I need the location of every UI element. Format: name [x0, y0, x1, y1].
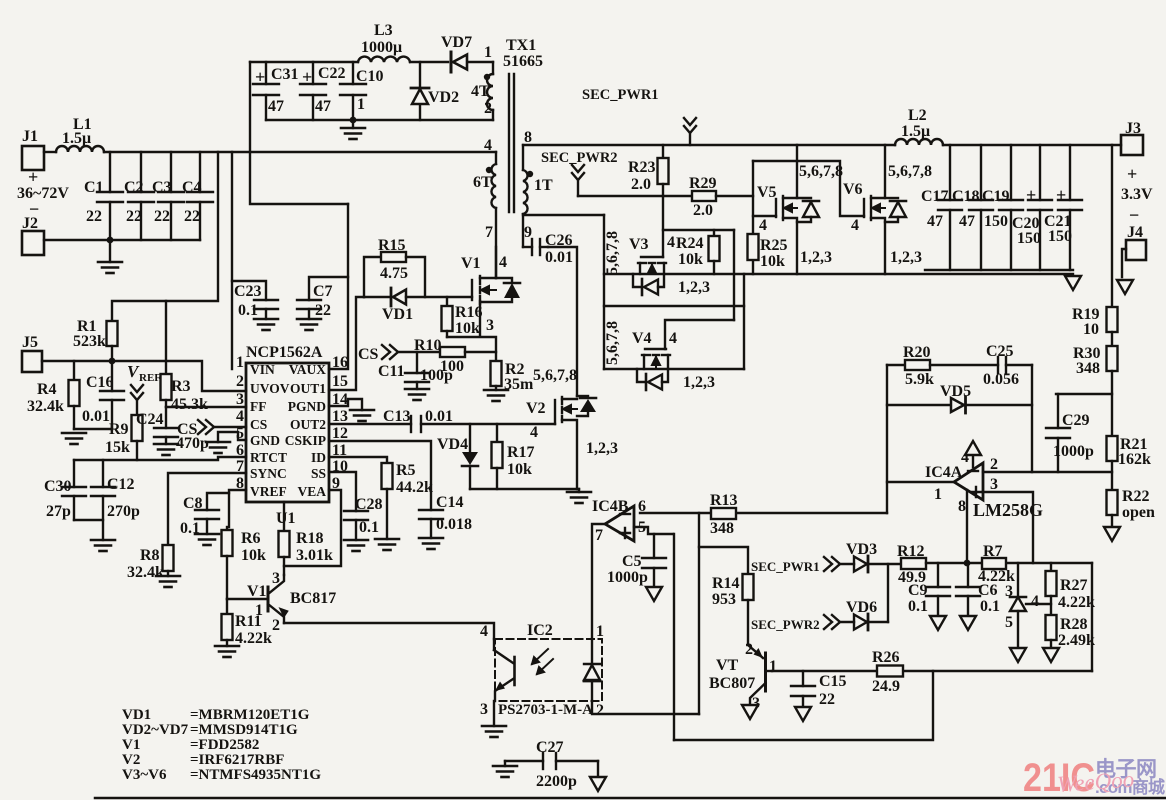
- V5 body diode: [797, 198, 819, 222]
- svg-text:VD1: VD1: [382, 306, 413, 323]
- svg-text:1.5μ: 1.5μ: [62, 130, 91, 147]
- svg-text:1,2,3: 1,2,3: [890, 249, 922, 266]
- svg-text:C23: C23: [234, 283, 262, 300]
- wire aux bottom rail: [266, 119, 493, 121]
- U1 left pin names: [250, 362, 290, 499]
- ground under C11: [405, 389, 429, 400]
- svg-text:R4: R4: [37, 381, 57, 398]
- capacitor C28: [344, 511, 368, 540]
- resistor R6: [222, 527, 233, 599]
- svg-text:22: 22: [126, 208, 142, 225]
- net flag under C5: [646, 587, 662, 601]
- wire R19 column riser: [1111, 145, 1113, 307]
- resistor R13: [711, 508, 736, 519]
- V3 body diode: [633, 274, 664, 295]
- svg-text:R11: R11: [235, 613, 262, 630]
- svg-text:C8: C8: [183, 495, 203, 512]
- svg-text:15k: 15k: [105, 439, 130, 456]
- svg-text:CS: CS: [250, 417, 267, 432]
- wire source rail y274: [604, 273, 1073, 275]
- U1 right pin numbers: [332, 354, 348, 492]
- svg-text:2: 2: [236, 373, 244, 390]
- svg-text:VD7: VD7: [441, 34, 472, 51]
- svg-text:45.3k: 45.3k: [171, 396, 208, 413]
- wire ID pin11 to R5: [329, 457, 387, 463]
- wire IC4B pin5 to C5: [634, 527, 673, 534]
- svg-text:0.01: 0.01: [82, 408, 110, 425]
- wire OUT1 riser x356: [329, 297, 364, 390]
- resistor R19: [1107, 307, 1118, 332]
- wire feedback left riser x887: [886, 365, 888, 513]
- svg-text:32.4k: 32.4k: [27, 398, 64, 415]
- svg-text:47: 47: [927, 213, 943, 230]
- wire FF pin3 line: [166, 406, 246, 408]
- V3 substrate arrow: [648, 264, 656, 274]
- svg-text:IC2: IC2: [527, 622, 553, 639]
- svg-text:V1: V1: [122, 737, 140, 753]
- wire cap bank bottom rail: [925, 269, 1073, 271]
- resistor R15 loop: [364, 252, 425, 297]
- capacitor C3: [158, 152, 184, 240]
- resistor R10: [440, 347, 496, 357]
- wire VAUX riser x348: [329, 204, 348, 369]
- svg-text:C5: C5: [622, 553, 642, 570]
- svg-text:0.1: 0.1: [980, 598, 1000, 615]
- svg-text:5: 5: [236, 425, 244, 442]
- wire pin9 to V3 drain: [523, 214, 604, 216]
- svg-text:SEC_PWR1: SEC_PWR1: [582, 87, 659, 103]
- V4 body diode: [637, 369, 668, 390]
- svg-text:R28: R28: [1060, 616, 1088, 633]
- diode VD2: [411, 62, 459, 120]
- diode VD6: [840, 599, 888, 630]
- svg-text:C25: C25: [986, 343, 1014, 360]
- transistor V4 MOSFET: [642, 349, 670, 369]
- resistor R3: [161, 301, 172, 407]
- wire C26 to V2 drain riser: [548, 247, 577, 396]
- svg-text:32.4k: 32.4k: [127, 564, 164, 581]
- resistor R18: [279, 502, 290, 575]
- svg-text:523k: 523k: [73, 333, 106, 350]
- svg-text:4: 4: [759, 217, 767, 234]
- TX1 core: [509, 74, 514, 212]
- wire rail to R1 jog: [112, 152, 218, 321]
- svg-text:V2: V2: [122, 752, 140, 768]
- V2 substrate arrow: [562, 405, 577, 413]
- svg-text:FF: FF: [250, 399, 267, 414]
- supply arrow above IC4A: [965, 441, 981, 467]
- svg-text:2: 2: [596, 702, 604, 719]
- svg-text:6: 6: [236, 442, 244, 459]
- wire R14 branch: [699, 547, 748, 574]
- svg-text:C15: C15: [819, 673, 847, 690]
- svg-text:REF: REF: [139, 372, 161, 384]
- resistor R29: [692, 191, 753, 201]
- resistor R9: [132, 415, 143, 441]
- svg-text:OUT2: OUT2: [290, 417, 326, 432]
- svg-text:3: 3: [1005, 583, 1013, 600]
- svg-text:OUT1: OUT1: [290, 381, 326, 396]
- net SEC_PWR2 top: [541, 150, 618, 196]
- svg-text:CS: CS: [358, 346, 379, 363]
- diode VD1: [364, 288, 472, 323]
- svg-text:+: +: [255, 67, 265, 87]
- capacitor C21: [1058, 145, 1082, 270]
- IC2 light arrows: [532, 649, 553, 674]
- wire V4 source row y369: [604, 368, 744, 370]
- svg-text:7: 7: [595, 527, 603, 544]
- ground under C28: [344, 540, 368, 551]
- capacitor C25: [998, 357, 1032, 373]
- capacitor C20: [1028, 145, 1052, 270]
- capacitor C17: [938, 145, 962, 270]
- net CS into pin4: [176, 420, 246, 452]
- svg-text:+: +: [302, 67, 312, 87]
- wire VT collector row y671: [772, 670, 1092, 672]
- svg-text:953: 953: [712, 591, 736, 608]
- svg-text:100p: 100p: [420, 367, 453, 384]
- svg-text:SS: SS: [311, 466, 326, 481]
- svg-text:1: 1: [934, 486, 942, 503]
- svg-text:4.75: 4.75: [380, 265, 408, 282]
- wire VD6 riser to R12 line: [887, 564, 889, 622]
- svg-text:5,6,7,8: 5,6,7,8: [604, 321, 621, 365]
- wire V5 gate tap: [753, 215, 776, 217]
- svg-text:V4: V4: [632, 330, 652, 347]
- diode VD3: [840, 541, 901, 572]
- wire R24 stub y230: [663, 229, 734, 231]
- net VREF label: [127, 362, 161, 415]
- capacitor C12: [91, 460, 115, 540]
- svg-text:+: +: [1127, 164, 1137, 184]
- svg-text:C19: C19: [982, 188, 1010, 205]
- svg-text:=FDD2582: =FDD2582: [190, 737, 259, 753]
- TX1 primary winding 6T: [491, 152, 496, 278]
- svg-text:1: 1: [769, 658, 777, 675]
- svg-text:C3: C3: [152, 179, 172, 196]
- svg-text:6T: 6T: [473, 174, 492, 191]
- svg-text:C18: C18: [952, 188, 980, 205]
- svg-text:+: +: [1026, 185, 1036, 205]
- wire R9 bottom to RTCT line: [136, 441, 138, 460]
- svg-text:V3~V6: V3~V6: [122, 767, 167, 783]
- svg-text:5,6,7,8: 5,6,7,8: [799, 163, 843, 180]
- resistor R1: [107, 321, 118, 346]
- svg-text:IC4B: IC4B: [592, 498, 629, 515]
- svg-text:C12: C12: [107, 476, 135, 493]
- svg-text:C10: C10: [356, 68, 384, 85]
- svg-text:IC4A: IC4A: [925, 464, 963, 481]
- svg-text:8: 8: [524, 129, 532, 146]
- svg-text:1000μ: 1000μ: [361, 39, 402, 56]
- resistor R16: [442, 297, 453, 337]
- svg-text:15: 15: [332, 373, 348, 390]
- ground under R5: [375, 539, 399, 550]
- ground under R4: [62, 433, 86, 444]
- svg-text:5,6,7,8: 5,6,7,8: [604, 231, 621, 275]
- wire IC4A pin2 line: [983, 471, 1112, 473]
- svg-text:0.018: 0.018: [436, 516, 472, 533]
- svg-text:7: 7: [236, 458, 244, 475]
- svg-text:10k: 10k: [241, 547, 266, 564]
- svg-text:4: 4: [530, 424, 538, 441]
- resistor R12: [901, 558, 1092, 569]
- svg-text:SYNC: SYNC: [250, 466, 287, 481]
- wire secondary top rail: [523, 144, 895, 146]
- svg-text:=MMSD914T1G: =MMSD914T1G: [190, 722, 298, 738]
- svg-text:51665: 51665: [503, 53, 543, 70]
- U1 left pin numbers: [236, 354, 244, 492]
- transistor V1 BC817: [227, 570, 336, 634]
- svg-text:=NTMFS4935NT1G: =NTMFS4935NT1G: [190, 767, 321, 783]
- capacitor C16: [74, 361, 124, 429]
- transistor V2 MOSFET: [555, 397, 577, 489]
- transistor V5 MOSFET: [776, 145, 797, 274]
- svg-text:3: 3: [272, 570, 280, 587]
- wire feedback right riser x1032: [1031, 365, 1033, 472]
- V5 substrate arrow: [783, 204, 797, 212]
- svg-text:GND: GND: [250, 433, 280, 448]
- TX1 secondary winding 1T: [523, 145, 528, 247]
- svg-text:4: 4: [484, 137, 492, 154]
- dot 6T: [486, 167, 492, 173]
- svg-text:BC817: BC817: [290, 590, 336, 607]
- wire output rail: [943, 144, 1121, 146]
- wire IC4B output to IC2 pin1: [592, 524, 605, 639]
- svg-text:24.9: 24.9: [872, 678, 900, 695]
- svg-text:1: 1: [596, 623, 604, 640]
- transistor V3 MOSFET: [638, 257, 666, 274]
- svg-text:150: 150: [1017, 230, 1041, 247]
- svg-text:=IRF6217RBF: =IRF6217RBF: [190, 752, 284, 768]
- svg-text:R14: R14: [712, 575, 740, 592]
- wire main input rail: [104, 151, 496, 153]
- svg-text:47: 47: [315, 98, 331, 115]
- diode VD5: [887, 383, 1032, 413]
- capacitor C19: [999, 145, 1023, 270]
- dot 4T: [484, 74, 490, 80]
- wire SYNC pin7 to R8: [168, 473, 246, 545]
- svg-text:ID: ID: [311, 450, 326, 465]
- resistor R11: [222, 599, 233, 646]
- wire bias block right edge: [1091, 563, 1093, 671]
- capacitor C13: [411, 416, 555, 432]
- svg-text:L3: L3: [374, 22, 393, 39]
- svg-text:R29: R29: [689, 175, 717, 192]
- svg-text:0.01: 0.01: [425, 408, 453, 425]
- svg-text:1: 1: [484, 44, 492, 61]
- svg-text:VD1: VD1: [122, 707, 151, 723]
- svg-text:36~72V: 36~72V: [17, 185, 69, 202]
- wire C29 top row y394: [1056, 393, 1112, 395]
- wire gate link rail y161: [753, 161, 864, 216]
- svg-text:27p: 27p: [46, 503, 71, 520]
- svg-text:R26: R26: [872, 649, 900, 666]
- svg-text:2: 2: [990, 456, 998, 473]
- resistor R28: [1046, 615, 1057, 647]
- net SEC_PWR1 top: [582, 87, 696, 145]
- svg-text:VD6: VD6: [846, 599, 877, 616]
- svg-text:1,2,3: 1,2,3: [678, 279, 710, 296]
- svg-text:2.49k: 2.49k: [1058, 632, 1095, 649]
- svg-text:C11: C11: [378, 363, 405, 380]
- svg-text:8: 8: [236, 475, 244, 492]
- svg-text:2: 2: [745, 641, 753, 658]
- wire IC4B pin5 net riser x674: [673, 534, 675, 740]
- svg-text:3: 3: [990, 476, 998, 493]
- wire V3 gate riser x663: [662, 196, 664, 257]
- svg-text:SEC_PWR2: SEC_PWR2: [541, 150, 618, 166]
- resistor R24: [709, 230, 720, 274]
- capacitor C8: [195, 493, 229, 534]
- svg-text:R7: R7: [983, 543, 1003, 560]
- capacitor C29: [1046, 394, 1070, 472]
- svg-text:V1: V1: [247, 583, 267, 600]
- svg-text:V2: V2: [526, 400, 546, 417]
- capacitor C26: [523, 239, 548, 255]
- svg-text:0.056: 0.056: [983, 371, 1019, 388]
- svg-text:2.0: 2.0: [693, 202, 713, 219]
- svg-text:open: open: [1122, 504, 1155, 521]
- ground under C10: [341, 120, 365, 139]
- U1 right pin names: [285, 362, 327, 499]
- svg-text:C1: C1: [84, 179, 104, 196]
- svg-text:VT: VT: [716, 657, 739, 674]
- GND pin5 jog and ground: [206, 432, 246, 453]
- wire mid rail y306: [604, 305, 744, 307]
- svg-text:44.2k: 44.2k: [396, 479, 433, 496]
- wire SS pin10 to C28: [329, 472, 356, 511]
- capacitor C10: [340, 62, 366, 120]
- ground under R8: [156, 571, 180, 587]
- svg-text:R15: R15: [378, 237, 406, 254]
- diode VD7: [441, 34, 493, 72]
- wire V4 gate row y320: [665, 320, 734, 349]
- transistor V1 MOSFET: [472, 247, 496, 336]
- svg-text:C30: C30: [44, 478, 72, 495]
- svg-text:3: 3: [480, 701, 488, 718]
- optocoupler IC2: [480, 622, 604, 719]
- wire VEA pin9 riser: [284, 490, 341, 566]
- svg-text:L2: L2: [908, 107, 927, 124]
- wire J1 to L1: [44, 151, 56, 153]
- net flag under R28: [1043, 648, 1059, 662]
- op-amp IC4B: [592, 498, 646, 544]
- IC U1 NCP1562A box: [246, 344, 329, 527]
- svg-text:C31: C31: [271, 66, 299, 83]
- resistor R14: [743, 574, 754, 645]
- ground C27 left: [493, 766, 517, 777]
- svg-text:4: 4: [669, 330, 677, 347]
- svg-text:C28: C28: [355, 496, 383, 513]
- resistor R5: [382, 463, 393, 539]
- svg-text:348: 348: [1076, 360, 1100, 377]
- ground under C8: [195, 534, 219, 545]
- svg-text:22: 22: [315, 302, 331, 319]
- ground under V2: [567, 489, 591, 503]
- capacitor C1: [97, 152, 123, 240]
- svg-text:RTCT: RTCT: [250, 450, 287, 465]
- svg-text:5: 5: [1005, 614, 1013, 631]
- transistor V6 MOSFET: [864, 145, 885, 274]
- svg-text:R24: R24: [676, 235, 704, 252]
- svg-text:0.1: 0.1: [908, 598, 928, 615]
- junction dot J5/R1: [109, 358, 116, 365]
- capacitor C27: [505, 739, 598, 790]
- svg-text:R8: R8: [140, 547, 160, 564]
- svg-text:BC807: BC807: [709, 675, 755, 692]
- svg-text:V5: V5: [757, 184, 777, 201]
- ground under C1: [98, 262, 122, 273]
- svg-text:V3: V3: [629, 236, 649, 253]
- capacitor C5: [642, 534, 666, 585]
- output voltage label: [1121, 164, 1153, 225]
- svg-text:−: −: [1129, 205, 1139, 225]
- inductor L3: [358, 57, 410, 62]
- svg-text:4: 4: [499, 254, 507, 271]
- net flag under C6: [960, 616, 976, 630]
- wire CSKIP pin12 to C14: [329, 441, 431, 510]
- resistor R2: [491, 361, 502, 386]
- wire V4 source return x744: [743, 274, 745, 369]
- svg-text:J5: J5: [22, 334, 38, 351]
- svg-text:47: 47: [268, 98, 284, 115]
- svg-text:1,2,3: 1,2,3: [586, 440, 618, 457]
- resistor R27: [1046, 563, 1057, 615]
- capacitor C18: [969, 145, 993, 270]
- svg-text:J1: J1: [22, 128, 38, 145]
- svg-text:1,2,3: 1,2,3: [800, 249, 832, 266]
- svg-text:5,6,7,8: 5,6,7,8: [888, 163, 932, 180]
- wire aux rail riser at x250: [250, 62, 348, 204]
- svg-text:1: 1: [236, 354, 244, 371]
- svg-text:+: +: [1056, 185, 1066, 205]
- IC2 LED: [584, 639, 600, 701]
- V6 body diode: [885, 198, 906, 222]
- svg-text:R3: R3: [171, 378, 191, 395]
- capacitor C22: [300, 62, 326, 120]
- inductor L1: [56, 146, 104, 152]
- resistor R20: [887, 360, 998, 370]
- svg-text:162k: 162k: [1118, 451, 1151, 468]
- resistor R22: [1107, 490, 1118, 527]
- svg-text:10k: 10k: [760, 253, 785, 270]
- svg-text:UVOV: UVOV: [250, 381, 290, 396]
- svg-text:3: 3: [486, 317, 494, 334]
- svg-text:4.22k: 4.22k: [1058, 594, 1095, 611]
- svg-text:C22: C22: [318, 65, 346, 82]
- svg-text:270p: 270p: [107, 503, 140, 520]
- svg-text:2.0: 2.0: [631, 176, 651, 193]
- wire C1 to ground: [109, 240, 111, 262]
- svg-text:4: 4: [1031, 593, 1039, 610]
- svg-text:12: 12: [332, 425, 348, 442]
- svg-text:VD5: VD5: [940, 383, 971, 400]
- svg-text:150: 150: [984, 213, 1008, 230]
- net flag under R22: [1104, 527, 1120, 541]
- net SEC_PWR1 to VD3: [751, 557, 840, 574]
- transistor VT BC807: [709, 641, 777, 712]
- svg-text:R18: R18: [296, 530, 324, 547]
- svg-text:VD3: VD3: [846, 541, 877, 558]
- net flag VT emitter: [742, 705, 758, 719]
- net flag under C9: [930, 616, 946, 630]
- svg-text:10k: 10k: [455, 320, 480, 337]
- capacitor C2: [128, 152, 154, 240]
- svg-text:0.01: 0.01: [545, 249, 573, 266]
- net flag under cap bank: [1065, 276, 1081, 290]
- capacitor C24: [154, 407, 178, 444]
